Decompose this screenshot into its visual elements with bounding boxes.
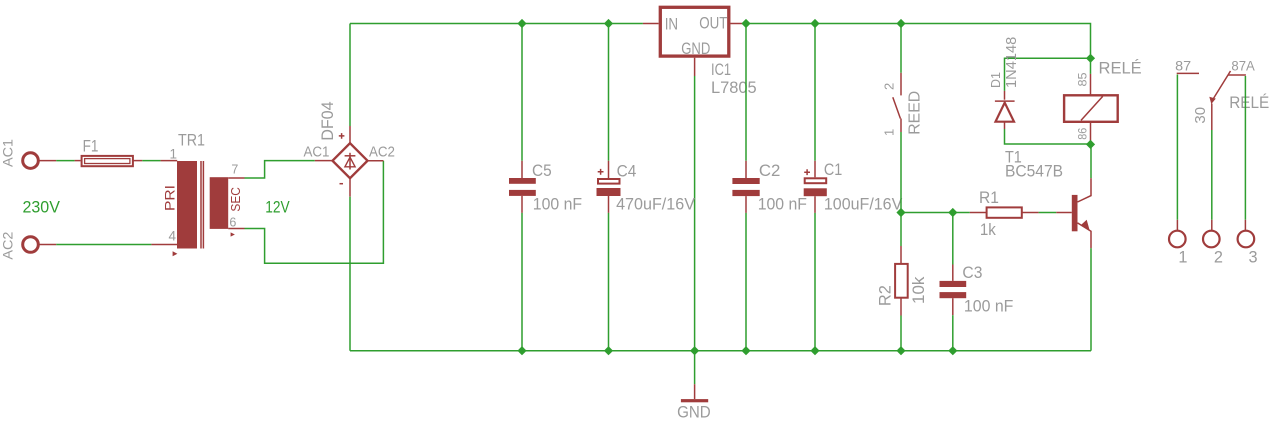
primary winding arrow [173, 251, 178, 256]
svg-text:C4: C4 [617, 162, 637, 181]
label GND [677, 403, 711, 422]
svg-text:30: 30 [1192, 107, 1209, 124]
svg-text:86: 86 [1075, 127, 1089, 139]
svg-text:85: 85 [1075, 72, 1089, 86]
capacitor C2 [732, 24, 759, 351]
svg-text:OUT: OUT [699, 14, 727, 33]
pin number 1 (reed) [882, 129, 897, 136]
svg-text:C5: C5 [532, 161, 552, 180]
svg-text:GND: GND [677, 403, 711, 422]
junction C2 bottom [741, 346, 750, 355]
svg-text:6: 6 [229, 215, 236, 229]
terminal pad 2 [1203, 231, 1220, 248]
pin label AC1 [0, 139, 15, 167]
top rail right segment [742, 24, 1091, 59]
label IC1 [711, 60, 731, 79]
svg-text:87: 87 [1175, 58, 1191, 73]
svg-text:RELÉ: RELÉ [1229, 93, 1269, 112]
junction reed/R2 [896, 208, 905, 217]
junction C4 top [604, 19, 613, 28]
transformer TR1 primary winding [177, 161, 197, 249]
relay coil K1 [1064, 95, 1118, 122]
relay common 30 [1211, 104, 1213, 231]
pin number 7 [231, 163, 238, 177]
pin label AC2 [0, 232, 15, 260]
wire 87A to pad 3 [1244, 76, 1246, 230]
value L7805 [711, 78, 757, 97]
svg-text:C3: C3 [962, 263, 982, 282]
svg-text:10k: 10k [910, 276, 928, 304]
C4 plus mark [598, 169, 604, 175]
svg-text:100 nF: 100 nF [533, 195, 582, 214]
voltage regulator IC1 box [660, 7, 729, 56]
top rail left segment [350, 23, 643, 25]
svg-text:BC547B: BC547B [1005, 161, 1063, 180]
terminal pad 1 [1169, 231, 1186, 248]
diode D1 top wire [1005, 58, 1091, 99]
svg-text:IC1: IC1 [711, 60, 731, 79]
svg-text:RELÉ: RELÉ [1099, 59, 1142, 78]
pad label 3 [1248, 248, 1257, 266]
wire AC1 pad to fuse [39, 160, 80, 162]
value 100 nF (C5) [533, 195, 582, 214]
bridge minus mark [340, 183, 344, 185]
junction C3 bottom [948, 346, 957, 355]
svg-text:470uF/16V: 470uF/16V [616, 195, 696, 214]
IC1 GND pin stub [694, 58, 696, 351]
wire bridge plus to top rail [349, 24, 351, 144]
junction C1 bottom [810, 346, 819, 355]
svg-text:GND: GND [681, 39, 710, 58]
relay contact 87 [1177, 72, 1199, 74]
net label 12V [265, 197, 290, 216]
svg-text:AC1: AC1 [0, 139, 15, 167]
C1 plus mark [804, 169, 810, 175]
svg-text:100uF/16V: 100uF/16V [824, 194, 903, 213]
wire TR1 pin 7 to bridge AC1 [228, 161, 333, 178]
relay coil bottom pin [1090, 122, 1092, 145]
transistor T1 emitter [1078, 220, 1092, 351]
value 100 nF (C3) [964, 296, 1014, 315]
terminal pad AC1 [23, 153, 39, 169]
junction relay top [1086, 54, 1095, 63]
junction relay bottom [1086, 140, 1095, 149]
svg-text:D1: D1 [988, 72, 1003, 88]
pin number 2 (reed) [882, 83, 897, 90]
junction C4 bottom [604, 346, 613, 355]
bridge pin name AC2 [369, 143, 395, 160]
svg-text:100 nF: 100 nF [964, 296, 1014, 315]
value 100 nF (C2) [758, 194, 807, 213]
svg-text:F1: F1 [83, 137, 99, 156]
svg-text:1k: 1k [980, 220, 996, 239]
svg-text:4: 4 [169, 229, 177, 244]
label DF04 [319, 101, 337, 140]
svg-text:87A: 87A [1231, 58, 1254, 73]
wire C3 junction to R1 [953, 212, 987, 214]
label R2 [877, 285, 895, 306]
reed switch S1 wire from top rail [900, 24, 902, 96]
wire 87 to pad 1 [1176, 75, 1178, 231]
bottom rail [350, 350, 1091, 352]
svg-text:230V: 230V [23, 198, 61, 217]
IC1 pin name OUT [699, 14, 727, 33]
label RELE coil [1099, 59, 1142, 78]
terminal pad 3 [1238, 231, 1255, 248]
wire R1 to T1 base [1022, 212, 1072, 214]
svg-text:SEC: SEC [229, 187, 243, 212]
junction GND [690, 346, 699, 355]
IC1 OUT pin stub [730, 23, 742, 25]
IC1 pin name IN [665, 14, 678, 33]
svg-text:AC1: AC1 [304, 143, 330, 160]
transformer core [201, 161, 203, 249]
svg-text:AC2: AC2 [369, 143, 395, 160]
label C1 [824, 160, 842, 179]
svg-text:IN: IN [665, 14, 678, 33]
label C5 [532, 161, 552, 180]
wire AC2 pad to TR1 pin 4 [39, 244, 177, 246]
wire fuse to TR1 pin 1 [133, 160, 177, 162]
diode D1 [995, 101, 1015, 122]
node wire reed junction to C3 junction [901, 212, 953, 214]
label C4 [617, 162, 637, 181]
capacitor C5 [509, 24, 536, 351]
relay contact blade [1209, 71, 1230, 104]
wire TR1 pin 6 to bridge AC2 [228, 161, 383, 263]
svg-text:PRI: PRI [162, 185, 177, 211]
value 1k [980, 220, 996, 239]
junction C5 bottom [517, 346, 526, 355]
label C3 [962, 263, 982, 282]
svg-text:REED: REED [906, 91, 923, 135]
capacitor C3 [940, 213, 967, 351]
reed switch blade [893, 97, 901, 118]
label 87 [1175, 58, 1191, 73]
pin number 4 [169, 229, 177, 244]
terminal pad AC2 [23, 237, 39, 253]
svg-text:TR1: TR1 [178, 131, 205, 150]
pin number 6 [229, 215, 236, 229]
label T1 [1005, 148, 1022, 167]
label D1 [988, 72, 1003, 88]
value 10k [910, 276, 928, 304]
bridge rectifier DF04 [333, 143, 368, 178]
svg-text:1: 1 [882, 129, 897, 136]
svg-text:1: 1 [170, 147, 178, 162]
value 100uF/16V [824, 194, 903, 213]
junction C5 top [517, 19, 526, 28]
bridge plus mark [339, 133, 345, 139]
value BC547B [1005, 161, 1063, 180]
label REED [906, 91, 923, 135]
label PRI [162, 185, 177, 211]
resistor R2 [895, 213, 908, 351]
pin name 86 [1075, 127, 1089, 139]
label TR1 [178, 131, 205, 150]
transformer TR1 secondary winding [210, 177, 229, 229]
svg-text:DF04: DF04 [319, 101, 337, 140]
label 87A [1231, 58, 1254, 73]
relay coil top pin [1090, 58, 1092, 95]
junction C3/R1 [948, 208, 957, 217]
capacitor C1 polarized [804, 24, 827, 351]
diode D1 bottom wire [1005, 122, 1091, 144]
pad label 2 [1214, 248, 1223, 266]
svg-text:7: 7 [231, 163, 238, 177]
pin number 1 [170, 147, 178, 162]
svg-text:3: 3 [1248, 248, 1257, 266]
transistor T1 base bar [1072, 195, 1078, 231]
svg-text:100 nF: 100 nF [758, 194, 807, 213]
svg-text:AC2: AC2 [0, 232, 15, 260]
label C2 [759, 161, 781, 180]
net label 230V [23, 198, 61, 217]
junction REED top [896, 19, 905, 28]
reed switch bottom contact [900, 119, 902, 213]
svg-text:C1: C1 [824, 160, 842, 179]
transistor T1 collector [1078, 144, 1092, 202]
pin name 30 [1192, 107, 1209, 124]
junction C2 top [741, 19, 750, 28]
svg-text:1: 1 [1178, 248, 1187, 266]
junction C1 top [810, 19, 819, 28]
junction R2 bottom [896, 346, 905, 355]
wire bridge minus to bottom rail [349, 178, 351, 351]
value 1N4148 [1003, 37, 1020, 88]
resistor R1 [987, 207, 1022, 217]
relay contact 87A [1228, 74, 1246, 76]
label RELE contacts [1229, 93, 1269, 112]
label R1 [979, 188, 999, 207]
svg-text:2: 2 [1214, 248, 1223, 266]
svg-text:1N4148: 1N4148 [1003, 37, 1020, 88]
pad label 1 [1178, 248, 1187, 266]
svg-text:C2: C2 [759, 161, 781, 180]
fuse F1 [82, 156, 133, 166]
svg-text:L7805: L7805 [711, 78, 757, 97]
IC1 IN pin stub [643, 23, 659, 25]
secondary winding arrow [231, 232, 235, 236]
label F1 [83, 137, 99, 156]
label SEC [229, 187, 243, 212]
svg-text:12V: 12V [265, 197, 290, 216]
svg-text:2: 2 [882, 83, 897, 90]
ground symbol GND [681, 351, 708, 403]
value 470uF/16V [616, 195, 696, 214]
svg-text:R2: R2 [877, 285, 895, 306]
bridge pin name AC1 [304, 143, 330, 160]
IC1 pin name GND [681, 39, 710, 58]
svg-text:R1: R1 [979, 188, 999, 207]
pin name 85 [1075, 72, 1089, 86]
capacitor C4 polarized [597, 24, 621, 351]
